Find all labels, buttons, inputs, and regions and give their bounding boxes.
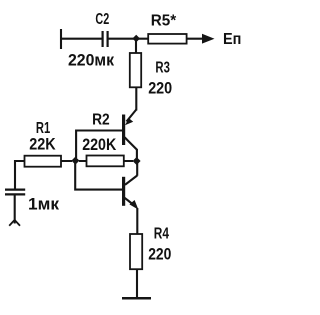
resistor R5 bbox=[148, 34, 186, 44]
svg-text:22K: 22K bbox=[29, 135, 56, 154]
svg-text:220мк: 220мк bbox=[68, 51, 114, 70]
input terminal bbox=[60, 29, 62, 49]
wire bbox=[109, 38, 204, 40]
transistor Q2 (NPN, bottom) bbox=[124, 163, 139, 235]
capacitor C1 bbox=[5, 190, 25, 195]
resistor R2 bbox=[87, 156, 124, 167]
wire (Q1 base to node B) bbox=[76, 131, 122, 159]
resistor R3 bbox=[130, 53, 141, 87]
ground bbox=[122, 297, 151, 300]
wire bbox=[14, 160, 16, 189]
arrow to En bbox=[202, 34, 215, 44]
svg-text:R3: R3 bbox=[155, 60, 170, 77]
svg-text:220K: 220K bbox=[82, 135, 117, 154]
node A (C2/R3/R5 junction) bbox=[132, 35, 140, 43]
svg-text:C2: C2 bbox=[95, 11, 109, 28]
svg-text:1мк: 1мк bbox=[28, 195, 59, 214]
node C (collector junction) bbox=[133, 157, 141, 165]
wire bbox=[135, 87, 137, 110]
svg-text:220: 220 bbox=[148, 79, 172, 98]
wire bbox=[136, 269, 138, 298]
svg-text:R4: R4 bbox=[154, 226, 169, 243]
ground (fork under C1) bbox=[9, 220, 20, 225]
capacitor C2 bbox=[103, 31, 108, 47]
wire bbox=[61, 38, 102, 40]
wire (node B to Q2 base) bbox=[75, 163, 122, 190]
transistor Q1 (PNP, top) bbox=[124, 110, 137, 160]
svg-text:R2: R2 bbox=[92, 112, 110, 129]
resistor R4 bbox=[130, 234, 142, 269]
svg-text:R5*: R5* bbox=[151, 13, 177, 30]
svg-text:Еп: Еп bbox=[223, 31, 241, 48]
node B (R1/R2/base junction) bbox=[71, 157, 79, 165]
wire bbox=[135, 40, 137, 54]
wire bbox=[15, 160, 72, 162]
wire bbox=[14, 196, 16, 224]
svg-text:220: 220 bbox=[148, 245, 171, 264]
resistor R1 bbox=[25, 156, 62, 167]
wire bbox=[79, 160, 133, 162]
